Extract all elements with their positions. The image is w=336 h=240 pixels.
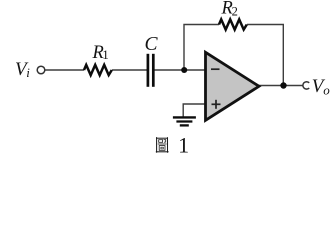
svg-text:1: 1	[178, 132, 189, 157]
svg-text:2: 2	[232, 4, 238, 18]
svg-text:i: i	[26, 65, 30, 80]
svg-text:1: 1	[102, 47, 109, 62]
svg-text:C: C	[145, 34, 159, 55]
svg-text:o: o	[323, 83, 330, 98]
